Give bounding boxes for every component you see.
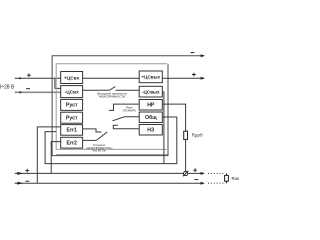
wire − input (15, 91, 61, 93)
terminal +ЦСвых (139, 71, 162, 83)
wire + branch to -ЦСвх terminal (55, 78, 61, 88)
label + input (27, 73, 31, 77)
wire − bottom (15, 182, 204, 184)
wire НР to Rдоб (162, 104, 185, 131)
label − right (195, 179, 199, 181)
terminal circle with slash (184, 171, 188, 175)
terminal НЗ (139, 125, 162, 136)
svg-text:Err1: Err1 (67, 128, 77, 134)
transistor НЕИСПРАВНОСТЬ open blade (109, 87, 115, 91)
label − output (191, 52, 195, 54)
inner boundary lower line (56, 154, 167, 156)
svg-text:Общ: Общ (145, 114, 157, 121)
opto collector contact from Err1 (83, 129, 102, 132)
device outer boundary and − output wire (52, 56, 204, 156)
opto emitter wire from Err2 (83, 139, 97, 141)
terminal Err2 (61, 137, 83, 148)
− right arrow (201, 182, 205, 185)
svg-text:«ПОЖАР»: «ПОЖАР» (123, 109, 137, 113)
wire Err1 to − bottom bus (37, 127, 60, 183)
svg-text:"НЕИСПРАВНОСТЬ": "НЕИСПРАВНОСТЬ" (98, 95, 126, 99)
svg-text:Rдоб: Rдоб (192, 133, 203, 138)
svg-text:8÷28 В: 8÷28 В (0, 84, 15, 90)
terminal Руст 2 (61, 112, 83, 123)
resistor Rок (226, 173, 228, 183)
wire + through (83, 77, 140, 79)
junction dot + input (19, 77, 21, 79)
svg-text:Rвх 80 Ом: Rвх 80 Ом (92, 149, 105, 153)
terminal Руст 1 (61, 99, 83, 110)
opto closed blade (96, 132, 107, 141)
label + right (193, 168, 197, 172)
terminal Общ (139, 112, 162, 123)
wire + input (15, 77, 61, 79)
wire -ЦСвых down to bus (162, 92, 164, 164)
dotted wire to Rок bottom (208, 182, 224, 184)
wire − through left segment (83, 89, 110, 91)
svg-text:НЗ: НЗ (147, 127, 155, 133)
svg-text:+ЦСвх: +ЦСвх (64, 75, 80, 81)
relay НЗ fixed contact (113, 125, 139, 129)
terminal Err1 (61, 125, 83, 136)
device inner boundary (56, 64, 167, 150)
label − bottom (25, 180, 29, 182)
+ output wire (162, 77, 204, 79)
relay НР fixed contact (109, 104, 139, 110)
svg-text:Err2: Err2 (67, 140, 77, 146)
relay Общ wire and blade (112, 117, 139, 121)
terminal +ЦСвх (61, 72, 83, 84)
wire + output from circle (188, 172, 204, 174)
terminal -ЦСвых (139, 86, 162, 97)
wire + bottom (15, 172, 184, 174)
wire − through right segment (116, 89, 140, 91)
+ right arrow (201, 172, 205, 175)
svg-text:-ЦСвых: -ЦСвых (142, 89, 160, 94)
− bottom arrow mark (18, 182, 22, 184)
label + bottom (25, 169, 29, 173)
dotted wire to Rок top (208, 172, 224, 174)
svg-text:-ЦСвх: -ЦСвх (65, 89, 80, 95)
+ bottom arrow mark (18, 172, 22, 174)
wire Общ return bus (45, 117, 177, 164)
label + output (192, 73, 196, 77)
junction dot − input (19, 91, 21, 93)
resistor Rдоб (184, 131, 188, 139)
+ output arrow (201, 77, 205, 80)
svg-text:Руст: Руст (66, 103, 78, 109)
− output arrow (201, 54, 205, 57)
svg-text:+ЦСвых: +ЦСвых (141, 75, 160, 80)
left terminal column (61, 72, 83, 149)
svg-text:НР: НР (147, 102, 155, 108)
wire Rдоб to terminal circle (185, 139, 187, 171)
label − input (26, 88, 30, 90)
svg-text:Руст: Руст (66, 115, 78, 121)
svg-text:Rок: Rок (232, 176, 240, 181)
terminal -ЦСвх (61, 86, 83, 98)
right terminal column (139, 71, 162, 135)
terminal НР (139, 100, 162, 111)
wire Err2 to + bottom bus (51, 142, 61, 174)
